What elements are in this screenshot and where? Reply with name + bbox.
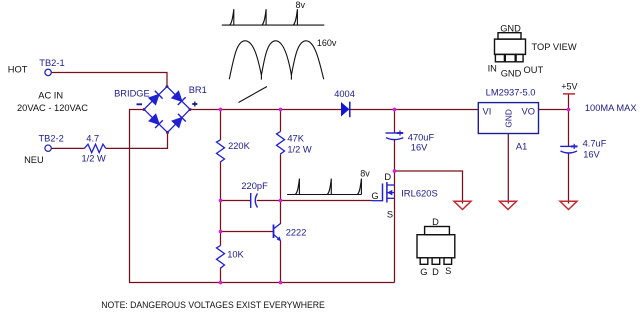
svg-text:1/2 W: 1/2 W: [287, 144, 312, 154]
svg-text:TB2-2: TB2-2: [39, 133, 64, 143]
svg-text:4004: 4004: [334, 89, 355, 99]
svg-text:10K: 10K: [227, 249, 244, 259]
svg-text:D: D: [432, 267, 439, 277]
svg-text:IRL620S: IRL620S: [401, 188, 438, 198]
svg-text:470uF: 470uF: [408, 132, 435, 142]
svg-text:220pF: 220pF: [241, 181, 268, 191]
svg-text:A1: A1: [516, 141, 527, 151]
svg-text:GND: GND: [503, 109, 513, 127]
svg-text:S: S: [445, 266, 451, 276]
svg-text:NEU: NEU: [24, 155, 44, 165]
svg-text:8v: 8v: [296, 0, 306, 10]
svg-text:BRIDGE: BRIDGE: [114, 89, 150, 99]
svg-text:100MA MAX: 100MA MAX: [585, 103, 637, 113]
svg-text:4.7: 4.7: [86, 134, 99, 144]
svg-text:16V: 16V: [411, 142, 428, 152]
svg-text:D: D: [384, 172, 391, 182]
svg-text:GND: GND: [500, 24, 521, 34]
svg-text:220K: 220K: [228, 141, 251, 151]
svg-text:D: D: [432, 217, 439, 227]
svg-text:20VAC - 120VAC: 20VAC - 120VAC: [17, 103, 88, 113]
svg-text:LM2937-5.0: LM2937-5.0: [486, 87, 536, 97]
svg-text:OUT: OUT: [524, 65, 544, 75]
svg-text:16V: 16V: [583, 149, 600, 159]
svg-text:HOT: HOT: [8, 65, 28, 75]
svg-text:VI: VI: [483, 107, 492, 117]
svg-text:NOTE: DANGEROUS VOLTAGES EXIST: NOTE: DANGEROUS VOLTAGES EXIST EVERYWHER…: [101, 300, 324, 310]
svg-text:VO: VO: [522, 107, 535, 117]
svg-text:47K: 47K: [287, 133, 304, 143]
svg-text:2222: 2222: [286, 228, 307, 238]
svg-text:G: G: [420, 267, 427, 277]
svg-text:GND: GND: [501, 68, 522, 78]
svg-text:TB2-1: TB2-1: [39, 58, 64, 68]
svg-text:AC IN: AC IN: [38, 91, 63, 101]
svg-text:G: G: [371, 191, 378, 201]
svg-text:S: S: [387, 210, 393, 220]
svg-text:BR1: BR1: [189, 85, 207, 95]
svg-text:IN: IN: [488, 63, 497, 73]
svg-text:1/2 W: 1/2 W: [82, 154, 107, 164]
svg-text:160v: 160v: [317, 38, 337, 48]
svg-text:TOP VIEW: TOP VIEW: [532, 42, 577, 52]
svg-text:8v: 8v: [360, 169, 370, 179]
svg-text:4.7uF: 4.7uF: [583, 138, 607, 148]
svg-text:+5V: +5V: [561, 81, 577, 91]
